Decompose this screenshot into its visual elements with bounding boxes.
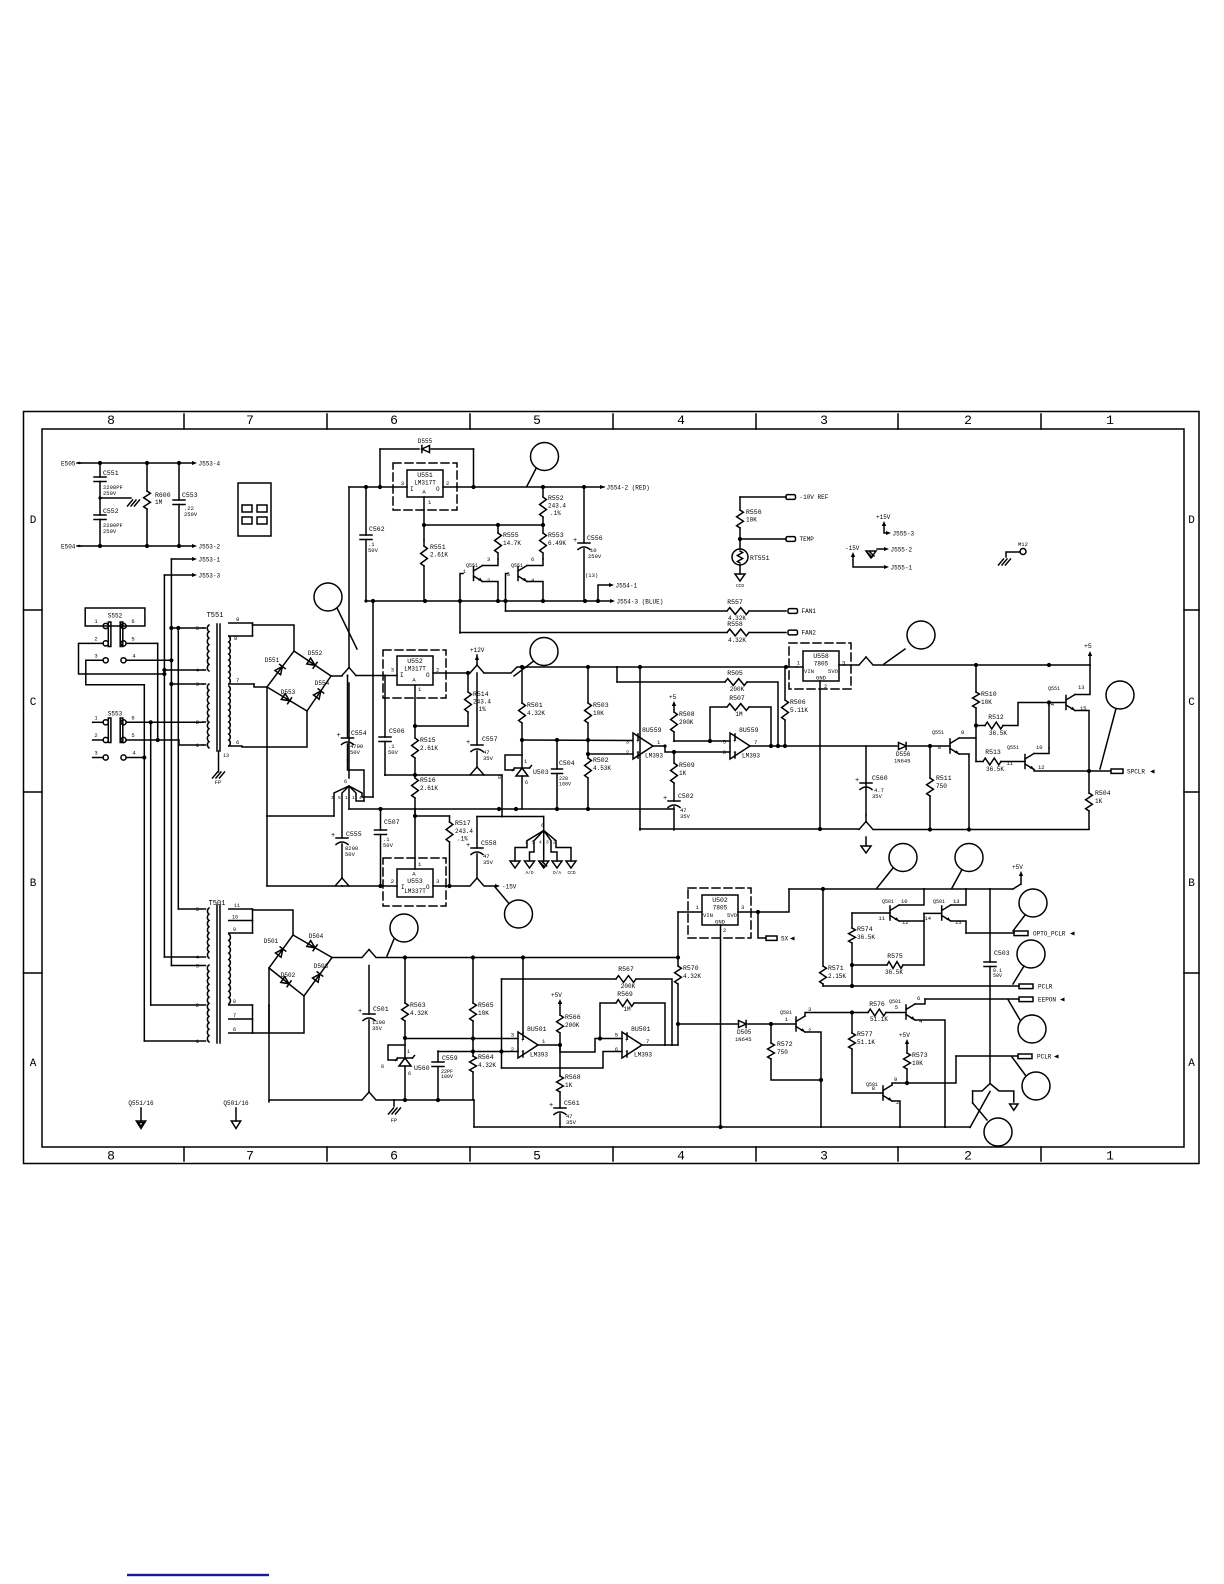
balloon 14 xyxy=(984,1118,1012,1146)
svg-text:5X: 5X xyxy=(781,936,789,943)
svg-text:8: 8 xyxy=(107,413,115,428)
svg-text:2.61K: 2.61K xyxy=(430,552,448,559)
svg-text:36.5K: 36.5K xyxy=(885,969,903,976)
svg-text:R504: R504 xyxy=(1095,790,1111,797)
svg-text:R573: R573 xyxy=(912,1052,928,1059)
regulator U551 xyxy=(407,470,443,497)
svg-text:200K: 200K xyxy=(679,719,694,726)
svg-text:10K: 10K xyxy=(593,710,604,717)
svg-text:J553-1: J553-1 xyxy=(199,556,221,563)
transformer T551 primary winding lower xyxy=(207,684,209,748)
svg-text:8: 8 xyxy=(381,1064,384,1070)
wire S553 pin2 stub xyxy=(93,739,103,741)
wire U551 adj xyxy=(423,497,425,540)
wire Q551a base down xyxy=(460,574,463,634)
svg-text:R566: R566 xyxy=(565,1014,581,1021)
Y-junction C501 top xyxy=(362,950,369,958)
svg-text:D552: D552 xyxy=(308,650,323,657)
svg-text:J554-1: J554-1 xyxy=(616,582,638,589)
svg-text:1M: 1M xyxy=(623,1006,631,1013)
svg-text:36.5K: 36.5K xyxy=(989,730,1007,737)
svg-text:B: B xyxy=(30,878,37,890)
svg-text:O: O xyxy=(436,486,440,493)
capacitor C561 xyxy=(554,1107,566,1109)
wire pin2 line y754 xyxy=(588,753,633,755)
frame column ticks top xyxy=(183,414,185,429)
resistor R555 xyxy=(497,525,499,533)
svg-text:3: 3 xyxy=(546,840,549,846)
svg-text:C562: C562 xyxy=(369,526,385,533)
svg-text:7: 7 xyxy=(246,1149,254,1164)
svg-text:Q501: Q501 xyxy=(933,899,945,905)
resistor R563 xyxy=(404,958,406,1004)
capacitor C555 xyxy=(336,837,348,839)
svg-text:10: 10 xyxy=(232,915,238,921)
transistor Q501b xyxy=(889,906,891,920)
svg-text:D: D xyxy=(30,515,37,527)
star branch 1 xyxy=(334,786,349,816)
svg-text:100V: 100V xyxy=(441,1074,453,1080)
svg-text:C: C xyxy=(1188,697,1195,709)
wire U501b output xyxy=(642,1044,678,1046)
capacitor C503 xyxy=(989,889,991,962)
svg-text:6: 6 xyxy=(531,556,534,563)
svg-text:R565: R565 xyxy=(478,1002,494,1009)
svg-text:35V: 35V xyxy=(483,755,494,762)
wire Q501d collector xyxy=(915,999,925,1004)
svg-text:R600: R600 xyxy=(155,492,171,499)
star right branch 1 xyxy=(515,831,544,862)
svg-text:2: 2 xyxy=(808,1027,811,1034)
star right branch 3 xyxy=(543,831,545,862)
bottom raw rail xyxy=(377,957,679,959)
Y-junction +5 rail xyxy=(859,657,866,665)
resistor R565 xyxy=(472,958,474,1004)
resistor R567 xyxy=(502,978,617,980)
svg-text:R564: R564 xyxy=(478,1054,494,1061)
capacitor C554 xyxy=(347,676,349,738)
svg-text:8U501: 8U501 xyxy=(527,1026,547,1033)
svg-text:C501: C501 xyxy=(373,1006,389,1013)
ground RT551 xyxy=(735,574,745,581)
svg-text:R558: R558 xyxy=(727,621,743,628)
svg-text:C556: C556 xyxy=(587,535,603,542)
wire Q551e collector xyxy=(959,737,976,739)
svg-text:2.61K: 2.61K xyxy=(420,745,438,752)
capacitor C553 xyxy=(178,463,180,500)
wire y816 link xyxy=(477,816,544,818)
svg-text:R515: R515 xyxy=(420,737,436,744)
svg-text:I: I xyxy=(401,884,405,891)
reference U503 pin1 xyxy=(521,740,523,768)
svg-text:C554: C554 xyxy=(351,730,367,737)
balloon 2 xyxy=(314,583,342,611)
wire U553 output xyxy=(433,885,469,887)
svg-text:6: 6 xyxy=(390,413,398,428)
wire Q501c collector xyxy=(951,889,966,905)
svg-text:5: 5 xyxy=(723,739,726,746)
svg-text:5: 5 xyxy=(196,906,199,913)
svg-text:U558: U558 xyxy=(813,653,829,660)
svg-text:R557: R557 xyxy=(727,599,743,606)
wire C558 riser xyxy=(476,817,478,849)
svg-text:FP: FP xyxy=(215,779,222,786)
wire -15V input line xyxy=(267,885,397,887)
svg-text:D504: D504 xyxy=(309,933,324,940)
wire T551 pin5 feed xyxy=(171,627,203,629)
svg-text:4: 4 xyxy=(132,653,136,660)
wire J554-1 stub xyxy=(598,585,609,601)
svg-text:1: 1 xyxy=(696,904,700,911)
wire S553 pin4 xyxy=(126,757,144,759)
ground bus y809 xyxy=(349,808,674,810)
wire C560 riser xyxy=(865,783,867,815)
wire bridge bottom to T551 pin6 xyxy=(242,711,307,747)
svg-text:1K: 1K xyxy=(679,770,687,777)
svg-text:R516: R516 xyxy=(420,777,436,784)
wire S552 pin4 xyxy=(126,659,171,661)
svg-text:250V: 250V xyxy=(103,490,117,497)
svg-text:A: A xyxy=(412,871,416,878)
frame column ticks bottom xyxy=(183,1147,185,1161)
svg-text:3: 3 xyxy=(436,878,439,885)
bottom rail mid section xyxy=(640,828,858,830)
svg-text:8: 8 xyxy=(938,744,941,751)
svg-text:R567: R567 xyxy=(618,966,634,973)
svg-text:1: 1 xyxy=(418,686,422,693)
svg-text:6: 6 xyxy=(525,780,528,786)
op-amp U559a xyxy=(633,733,653,759)
wire U502 input xyxy=(678,911,702,913)
bridge edge wires T551 xyxy=(267,651,294,687)
svg-text:LM393: LM393 xyxy=(634,1052,652,1059)
svg-text:C506: C506 xyxy=(389,728,405,735)
svg-text:R575: R575 xyxy=(887,953,903,960)
svg-text:10K: 10K xyxy=(746,517,757,524)
balloon 5 xyxy=(1106,681,1134,709)
svg-text:4: 4 xyxy=(132,750,136,757)
svg-text:T551: T551 xyxy=(207,612,224,620)
capacitor C560 xyxy=(860,782,872,784)
svg-text:R552: R552 xyxy=(548,495,564,502)
svg-text:U551: U551 xyxy=(417,472,433,479)
svg-text:R513: R513 xyxy=(985,749,1001,756)
regulator U553 xyxy=(397,869,433,897)
svg-text:OPTO_PCLR: OPTO_PCLR xyxy=(1033,931,1066,938)
svg-text:1: 1 xyxy=(542,1038,546,1045)
svg-text:3: 3 xyxy=(331,795,334,801)
svg-text:Q501/16: Q501/16 xyxy=(223,1100,249,1107)
svg-text:C504: C504 xyxy=(559,760,575,767)
svg-text:7: 7 xyxy=(646,1038,649,1045)
svg-text:Q551: Q551 xyxy=(932,730,944,736)
svg-text:2: 2 xyxy=(896,1099,899,1106)
svg-text:R563: R563 xyxy=(410,1002,426,1009)
svg-text:+: + xyxy=(466,842,470,850)
svg-text:R509: R509 xyxy=(679,762,695,769)
diode D505 xyxy=(739,1021,747,1028)
diode D503 xyxy=(313,974,320,982)
svg-text:-10V REF: -10V REF xyxy=(800,494,829,501)
wire Q551c emitter xyxy=(1075,711,1089,772)
wire C551/C552 mid to ground xyxy=(100,497,131,499)
capacitor C562 xyxy=(360,534,372,536)
svg-text:50V: 50V xyxy=(345,851,356,858)
balloon 7 xyxy=(390,914,418,942)
svg-text:8: 8 xyxy=(234,635,237,642)
resistor R551 xyxy=(421,546,428,566)
svg-text:3: 3 xyxy=(94,750,97,757)
svg-text:R501: R501 xyxy=(527,702,543,709)
wire Q501c base xyxy=(924,912,942,914)
svg-text:3: 3 xyxy=(626,739,629,746)
resistor R576 xyxy=(850,1010,854,1014)
wire bridge2 minus down xyxy=(268,1006,270,1103)
svg-text:2: 2 xyxy=(511,1046,514,1053)
svg-text:R553: R553 xyxy=(548,532,564,539)
svg-text:+: + xyxy=(331,832,335,840)
svg-text:8U559: 8U559 xyxy=(642,727,662,734)
diode D555 xyxy=(380,448,419,450)
svg-text:3: 3 xyxy=(511,1032,514,1039)
svg-text:8: 8 xyxy=(872,1085,875,1092)
wire bundle vertical 3 xyxy=(157,643,159,740)
transformer T501 secondary winding xyxy=(229,934,231,1004)
frame row ticks right xyxy=(1184,609,1199,611)
svg-text:LM337T: LM337T xyxy=(404,888,426,895)
svg-text:J553-4: J553-4 xyxy=(199,460,221,467)
wire bridge right to raw node xyxy=(331,675,342,677)
svg-text:D555: D555 xyxy=(418,438,433,445)
wire bundle vertical 5 xyxy=(170,559,172,966)
wire y775 line xyxy=(385,774,502,776)
ground peak join xyxy=(973,1084,1014,1103)
resistor R502 xyxy=(585,758,592,778)
regulator U552 xyxy=(397,656,433,685)
resistor R501 xyxy=(521,667,523,703)
wire Q501a emitter xyxy=(805,1032,821,1127)
svg-text:R505: R505 xyxy=(727,670,743,677)
svg-text:5: 5 xyxy=(533,413,541,428)
svg-text:8: 8 xyxy=(107,1149,115,1164)
svg-text:+5V: +5V xyxy=(899,1032,910,1039)
svg-text:+12V: +12V xyxy=(470,647,485,654)
svg-text:J555-3: J555-3 xyxy=(893,530,915,537)
regulator U552 dashed box xyxy=(383,650,446,698)
svg-text:C: C xyxy=(30,697,37,709)
svg-text:1: 1 xyxy=(428,499,432,506)
diode D554 xyxy=(314,691,321,699)
Y-junction bottom rail xyxy=(859,822,866,830)
svg-text:+15V: +15V xyxy=(876,514,891,521)
svg-text:5: 5 xyxy=(895,1004,898,1011)
svg-text:6: 6 xyxy=(233,1027,236,1033)
svg-text:D505: D505 xyxy=(737,1029,752,1036)
resistor R574 xyxy=(849,928,856,943)
wire U502 gnd xyxy=(720,925,722,1127)
wire S552 pin2 loop xyxy=(79,643,165,674)
capacitor C557 xyxy=(476,673,478,745)
wire bridge2 right to rail xyxy=(332,957,361,959)
wire Q501e base xyxy=(852,1092,883,1094)
capacitor C559 xyxy=(437,1051,439,1062)
svg-text:C553: C553 xyxy=(182,492,198,499)
resistor R573 xyxy=(904,1053,911,1069)
resistor R557 xyxy=(727,608,749,615)
regulator U502 xyxy=(702,895,738,925)
svg-text:2: 2 xyxy=(553,840,556,846)
svg-text:C561: C561 xyxy=(564,1100,580,1107)
svg-text:+: + xyxy=(337,732,341,740)
svg-text:Q551: Q551 xyxy=(466,563,478,569)
svg-text:6: 6 xyxy=(131,618,134,625)
transistor Q551b xyxy=(517,567,519,581)
Y-junction +12V arrow xyxy=(470,665,477,673)
wire Q501a collector xyxy=(805,1013,852,1017)
svg-text:U553: U553 xyxy=(407,878,423,885)
resistor R569 xyxy=(600,1003,616,1039)
wire FAN1 line xyxy=(506,610,728,612)
connector block symbol xyxy=(238,483,271,536)
svg-text:S553: S553 xyxy=(108,711,123,718)
svg-text:5: 5 xyxy=(131,732,134,739)
svg-text:2: 2 xyxy=(626,749,629,756)
svg-text:5: 5 xyxy=(196,625,199,632)
svg-text:+: + xyxy=(466,739,470,747)
wire Q501b emitter xyxy=(899,920,924,922)
svg-text:2: 2 xyxy=(723,927,726,934)
balloon 6 xyxy=(505,900,533,928)
wire S553 pin3 stub xyxy=(93,757,103,759)
resistor R509 xyxy=(673,752,675,763)
regulator U502 dashed box xyxy=(688,888,751,938)
transformer T501 secondary taps upper xyxy=(229,908,253,910)
svg-text:9: 9 xyxy=(961,729,964,736)
wire U558 gnd xyxy=(819,681,821,829)
resistor R504 xyxy=(1088,771,1090,793)
svg-text:8: 8 xyxy=(498,775,501,781)
wire bundle vertical 6 xyxy=(177,628,179,909)
svg-text:50V: 50V xyxy=(368,547,379,554)
svg-text:3: 3 xyxy=(820,1149,828,1164)
svg-text:O: O xyxy=(426,884,430,891)
wire S553 pin1 stub xyxy=(93,721,103,723)
svg-text:1: 1 xyxy=(345,795,348,801)
svg-text:11: 11 xyxy=(234,903,240,909)
resistor R568 xyxy=(559,1045,561,1076)
svg-text:5: 5 xyxy=(131,636,134,643)
svg-text:3: 3 xyxy=(94,653,97,660)
top rail bottom section xyxy=(789,888,1013,890)
wire U560 pin8 loop xyxy=(388,1045,405,1060)
svg-text:C558: C558 xyxy=(481,840,497,847)
tag SPCLR xyxy=(1111,769,1123,773)
wire U558 input xyxy=(797,666,803,668)
wire U501a power feed xyxy=(522,958,524,1034)
svg-text:J555-1: J555-1 xyxy=(891,564,913,571)
resistor R556 xyxy=(739,497,741,510)
svg-text:LM393: LM393 xyxy=(530,1052,548,1059)
balloon 11 xyxy=(1017,940,1045,968)
svg-text:750: 750 xyxy=(777,1049,788,1056)
transformer T551 secondary taps xyxy=(229,622,253,624)
svg-text:1: 1 xyxy=(418,861,422,868)
resistor R510 xyxy=(975,665,977,692)
resistor R505 xyxy=(616,667,618,682)
svg-text:5VO: 5VO xyxy=(828,668,839,675)
svg-text:5: 5 xyxy=(507,571,510,578)
svg-text:C503: C503 xyxy=(994,950,1010,957)
svg-text:(13): (13) xyxy=(585,572,598,579)
svg-text:1: 1 xyxy=(407,1049,410,1055)
svg-text:750: 750 xyxy=(936,783,947,790)
svg-text:C502: C502 xyxy=(678,793,694,800)
svg-text:FAN2: FAN2 xyxy=(802,630,817,637)
resistor R515 xyxy=(412,738,419,758)
resistor R570 xyxy=(677,958,679,967)
transformer T551 pin13 ground lead xyxy=(218,751,220,772)
resistor R552 xyxy=(542,487,544,497)
wire Q501b/c node riser xyxy=(923,913,925,965)
svg-text:4: 4 xyxy=(919,1018,923,1025)
svg-text:5: 5 xyxy=(532,840,535,846)
resistor R512 xyxy=(974,723,978,727)
svg-text:R511: R511 xyxy=(936,775,952,782)
svg-text:I: I xyxy=(400,672,404,679)
wire bridge minus down xyxy=(266,687,268,886)
wire to -15V arrow xyxy=(485,885,496,887)
transformer T501 primary winding lower xyxy=(207,965,209,1042)
svg-text:D/A: D/A xyxy=(553,870,561,876)
svg-text:.1%: .1% xyxy=(550,510,561,517)
transistor Q551e xyxy=(949,739,951,753)
svg-text:U552: U552 xyxy=(407,658,423,665)
svg-text:50V: 50V xyxy=(388,749,399,756)
arrow J554-3 BLUE xyxy=(598,600,610,602)
arrow J554-2 RED xyxy=(600,485,605,489)
resistor R507 xyxy=(710,707,727,741)
svg-text:6: 6 xyxy=(236,739,239,746)
wire Q551d collector xyxy=(1034,748,1049,754)
wire out to U501b pin5 xyxy=(560,1039,622,1053)
svg-text:9: 9 xyxy=(894,1076,897,1083)
tag -10V REF xyxy=(786,495,796,500)
svg-text:Q551: Q551 xyxy=(511,563,523,569)
svg-text:+: + xyxy=(549,1102,553,1110)
wire bridge left to T551 pin7 xyxy=(254,684,267,687)
svg-text:R514: R514 xyxy=(473,691,489,698)
resistor R566 xyxy=(557,1015,564,1033)
svg-text:A: A xyxy=(1188,1058,1195,1070)
svg-text:4: 4 xyxy=(531,577,535,584)
bottom rail lower xyxy=(474,1126,970,1128)
svg-text:5: 5 xyxy=(338,795,341,801)
wire S552 pin3 loop xyxy=(86,660,145,685)
svg-text:6: 6 xyxy=(917,995,920,1002)
svg-text:9: 9 xyxy=(233,927,236,933)
svg-text:O: O xyxy=(426,672,430,679)
wire U559a output xyxy=(653,745,665,747)
svg-text:C555: C555 xyxy=(346,831,362,838)
svg-text:10K: 10K xyxy=(912,1060,923,1067)
wire Q551b emitter xyxy=(527,582,543,602)
reference U560 xyxy=(403,1036,407,1040)
svg-text:2.15K: 2.15K xyxy=(828,973,846,980)
wire U552 adj xyxy=(414,685,416,738)
svg-text:J553-3: J553-3 xyxy=(199,572,221,579)
junction dots line2 xyxy=(98,544,102,548)
drawing frame inner border xyxy=(42,429,1184,1147)
